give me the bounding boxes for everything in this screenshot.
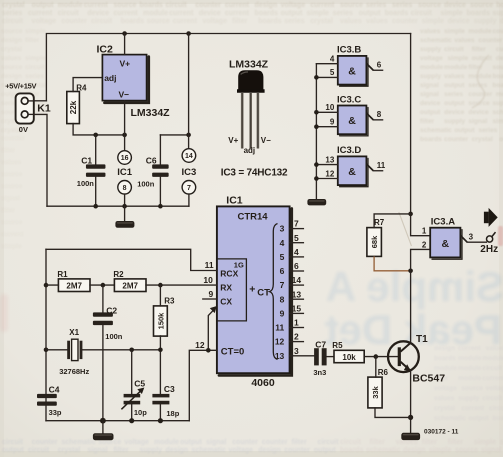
svg-text:series: series bbox=[2, 10, 22, 17]
wire IC3.C input pin 10 bbox=[316, 111, 337, 113]
label IC3.B bbox=[337, 45, 361, 56]
label 0V bbox=[19, 125, 28, 134]
node C2 ground bbox=[100, 418, 106, 424]
crystal X1 bbox=[46, 339, 160, 360]
svg-text:&: & bbox=[348, 166, 356, 178]
svg-text:9: 9 bbox=[280, 309, 285, 319]
svg-text:1: 1 bbox=[422, 227, 427, 236]
svg-text:22k: 22k bbox=[69, 100, 78, 114]
ground (output stage) bbox=[401, 433, 420, 440]
svg-text:simple: simple bbox=[307, 10, 329, 17]
pin number 6 bbox=[294, 261, 299, 271]
label R3 bbox=[164, 297, 175, 306]
wire top supply rail bbox=[46, 34, 410, 101]
svg-text:5: 5 bbox=[280, 252, 285, 262]
svg-text:simple: simple bbox=[25, 55, 46, 62]
resistor R1 bbox=[58, 279, 90, 292]
op-amp IC2 (LM334Z current source) bbox=[102, 55, 148, 103]
label R1 bbox=[57, 270, 68, 279]
svg-text:voltage: voltage bbox=[229, 447, 254, 454]
svg-text:series: series bbox=[444, 91, 463, 98]
pin number internal CT8 bbox=[280, 294, 285, 304]
wire IC3.C output pin 8 bbox=[373, 119, 382, 121]
svg-text:K1: K1 bbox=[37, 102, 51, 114]
svg-text:device: device bbox=[444, 2, 466, 9]
svg-text:current: current bbox=[28, 10, 53, 17]
pin number 11 bbox=[377, 161, 386, 170]
svg-text:7: 7 bbox=[280, 280, 285, 290]
svg-text:CT=0: CT=0 bbox=[221, 346, 245, 357]
svg-text:6: 6 bbox=[280, 266, 285, 276]
svg-text:8: 8 bbox=[377, 110, 382, 119]
svg-text:counter: counter bbox=[1, 135, 25, 142]
svg-text:supply: supply bbox=[444, 118, 465, 125]
svg-text:circuit: circuit bbox=[2, 18, 24, 25]
label + (internal) bbox=[249, 283, 255, 295]
svg-text:simple: simple bbox=[25, 28, 46, 35]
svg-text:device: device bbox=[199, 10, 221, 17]
svg-text:IC3.D: IC3.D bbox=[337, 145, 361, 156]
svg-text:R3: R3 bbox=[164, 297, 175, 306]
pin number 2 bbox=[422, 240, 427, 249]
wire K1 pin1 to +V rail bbox=[34, 100, 47, 102]
gate IC3.B bbox=[338, 56, 368, 86]
wire IC1 pin 1 stub bbox=[290, 327, 304, 329]
svg-text:IC3: IC3 bbox=[182, 167, 197, 178]
svg-text:boards: boards bbox=[434, 355, 456, 362]
svg-text:circuit: circuit bbox=[340, 439, 362, 446]
svg-text:device: device bbox=[448, 18, 470, 25]
svg-text:R7: R7 bbox=[374, 218, 385, 227]
svg-text:values: values bbox=[434, 395, 455, 402]
wire R1 leads bbox=[46, 284, 114, 286]
pin number internal CT11 bbox=[275, 323, 284, 333]
wire C6 top to IC3 supply line bbox=[160, 134, 188, 136]
pin number 4 bbox=[330, 55, 335, 64]
svg-text:module: module bbox=[420, 64, 443, 71]
svg-text:crystal: crystal bbox=[434, 405, 455, 412]
label LM334Z (package) bbox=[229, 58, 269, 70]
pin number 6 bbox=[377, 60, 382, 69]
wire R3 top bbox=[159, 285, 161, 306]
svg-text:V+: V+ bbox=[228, 136, 238, 145]
wire R7 top lead bbox=[374, 214, 411, 228]
svg-text:values: values bbox=[1, 159, 22, 166]
svg-text:12: 12 bbox=[195, 340, 205, 350]
svg-text:boards: boards bbox=[139, 2, 162, 9]
svg-text:module: module bbox=[482, 355, 503, 362]
svg-text:output: output bbox=[420, 109, 441, 116]
label IC3.A bbox=[431, 216, 455, 227]
svg-text:10: 10 bbox=[203, 275, 213, 285]
svg-text:100n: 100n bbox=[105, 332, 123, 341]
label 2Hz bbox=[480, 244, 498, 255]
svg-text:counter: counter bbox=[61, 18, 87, 25]
svg-text:boards: boards bbox=[467, 10, 490, 17]
svg-text:circuit: circuit bbox=[411, 10, 433, 17]
label R7 bbox=[374, 218, 385, 227]
svg-text:simple: simple bbox=[493, 118, 503, 125]
svg-text:IC3 = 74HC132: IC3 = 74HC132 bbox=[221, 167, 288, 178]
gate IC3.D bbox=[338, 156, 368, 186]
svg-text:&: & bbox=[442, 238, 450, 250]
svg-text:IC2: IC2 bbox=[97, 44, 114, 56]
svg-text:IC3.B: IC3.B bbox=[337, 45, 361, 56]
label IC2 bbox=[97, 44, 114, 56]
svg-text:series: series bbox=[366, 2, 386, 9]
label C7 bbox=[315, 340, 326, 350]
svg-text:filter: filter bbox=[448, 439, 463, 446]
label C6 bbox=[146, 156, 157, 166]
label CTR14 bbox=[237, 212, 268, 223]
svg-text:counter: counter bbox=[262, 439, 288, 446]
svg-text:output: output bbox=[468, 415, 489, 422]
node base / R6 bbox=[374, 354, 379, 359]
svg-text:boards: boards bbox=[493, 82, 503, 89]
svg-text:voltage: voltage bbox=[281, 2, 306, 9]
pin bubble 7 (IC3 ground) bbox=[182, 181, 196, 207]
svg-text:current: current bbox=[462, 405, 485, 412]
svg-text:0V: 0V bbox=[19, 125, 28, 134]
svg-text:filter: filter bbox=[1, 147, 16, 154]
pin number internal CT12 bbox=[275, 337, 285, 347]
svg-text:voltage: voltage bbox=[124, 439, 149, 446]
wire IC1 pin 2 stub bbox=[290, 341, 304, 343]
svg-text:boards: boards bbox=[493, 73, 503, 80]
label IC3.D bbox=[337, 145, 361, 156]
svg-text:circuit: circuit bbox=[318, 439, 340, 446]
svg-text:boards: boards bbox=[258, 18, 281, 25]
svg-text:boards: boards bbox=[255, 10, 278, 17]
svg-text:R6: R6 bbox=[378, 368, 389, 377]
svg-text:current: current bbox=[169, 10, 194, 17]
svg-text:supply: supply bbox=[420, 46, 441, 53]
pin number 11 bbox=[205, 260, 214, 270]
svg-text:3: 3 bbox=[469, 233, 474, 242]
svg-text:current: current bbox=[482, 375, 503, 382]
svg-text:boards: boards bbox=[385, 10, 408, 17]
svg-text:V−: V− bbox=[119, 89, 130, 99]
node bus pin5 bbox=[314, 75, 319, 80]
pin number internal CT4 bbox=[280, 238, 285, 248]
wire gate input bus to ground bbox=[315, 64, 317, 199]
wire IC3.D input pin 13 bbox=[316, 164, 337, 166]
svg-text:10p: 10p bbox=[134, 408, 147, 417]
svg-text:source: source bbox=[113, 2, 136, 9]
svg-text:supply: supply bbox=[458, 395, 479, 402]
svg-text:module: module bbox=[434, 365, 457, 372]
svg-text:device: device bbox=[468, 109, 489, 116]
label RCX bbox=[220, 269, 238, 279]
svg-text:filter: filter bbox=[422, 439, 437, 446]
wire IC1 pin 3 to C7 bbox=[290, 355, 315, 357]
trimmer capacitor C5 bbox=[121, 350, 144, 421]
CT output brace bbox=[270, 224, 278, 360]
wire IC1 pin 9 stub bbox=[203, 298, 217, 300]
label V- (package) bbox=[261, 136, 271, 145]
pin number 10 bbox=[325, 103, 334, 112]
svg-text:supply: supply bbox=[474, 18, 497, 25]
clock edge arrow (CX input) bbox=[208, 306, 217, 350]
svg-text:counter: counter bbox=[444, 136, 468, 143]
inverter wedge IC3.C output bbox=[366, 113, 373, 120]
svg-text:C7: C7 bbox=[315, 340, 326, 350]
svg-text:source: source bbox=[462, 385, 484, 392]
node R7 top bbox=[408, 212, 413, 217]
wire R6 top bbox=[375, 357, 377, 378]
svg-text:10: 10 bbox=[325, 103, 334, 112]
resistor R6 bbox=[368, 377, 382, 408]
svg-text:filter: filter bbox=[292, 439, 307, 446]
pin number internal CT13 bbox=[275, 351, 285, 361]
pin number 5 bbox=[294, 233, 299, 243]
svg-text:R5: R5 bbox=[332, 341, 343, 350]
wire IC1 pin 6 stub bbox=[290, 270, 304, 272]
node IC3 supply junction bbox=[186, 133, 191, 138]
capacitor C2 bbox=[93, 285, 113, 421]
svg-text:simple: simple bbox=[448, 55, 469, 62]
svg-text:circuit: circuit bbox=[2, 439, 24, 446]
svg-text:circuit: circuit bbox=[482, 365, 502, 372]
svg-text:current: current bbox=[84, 2, 109, 9]
svg-text:boards: boards bbox=[340, 447, 363, 454]
svg-text:current: current bbox=[113, 10, 138, 17]
svg-text:schematic: schematic bbox=[493, 109, 503, 116]
label R4 bbox=[76, 84, 87, 93]
svg-text:circuit: circuit bbox=[91, 18, 113, 25]
resistor R2 bbox=[114, 279, 146, 292]
label IC3 (supply bubbles) bbox=[182, 167, 197, 178]
label +5V/+15V bbox=[5, 82, 36, 91]
label R5 bbox=[332, 341, 343, 350]
node emitter / R6 ground bbox=[408, 415, 413, 420]
transistor T1 bbox=[388, 341, 419, 372]
label adj (package) bbox=[244, 146, 256, 155]
wire IC1 pin 7 stub bbox=[290, 228, 304, 230]
label C5 bbox=[134, 379, 145, 389]
svg-text:filter: filter bbox=[370, 439, 385, 446]
svg-text:circuit: circuit bbox=[58, 10, 80, 17]
svg-text:output: output bbox=[472, 55, 493, 62]
svg-text:simple: simple bbox=[444, 28, 465, 35]
label 4060 bbox=[251, 377, 275, 389]
node R1 left bbox=[44, 283, 49, 288]
svg-text:source: source bbox=[455, 447, 478, 454]
label IC1 (supply bubbles) bbox=[117, 167, 133, 178]
svg-text:crystal: crystal bbox=[2, 2, 25, 9]
svg-text:33p: 33p bbox=[49, 408, 62, 417]
svg-text:13: 13 bbox=[275, 351, 285, 361]
svg-text:IC1: IC1 bbox=[117, 167, 133, 178]
svg-text:BC547: BC547 bbox=[412, 372, 445, 384]
svg-text:4: 4 bbox=[330, 55, 335, 64]
label CT=0 bbox=[221, 346, 245, 357]
svg-text:signal: signal bbox=[420, 82, 439, 89]
pin number 7 bbox=[294, 219, 299, 229]
svg-text:source: source bbox=[340, 2, 363, 9]
svg-text:100n: 100n bbox=[137, 180, 155, 189]
svg-text:counter: counter bbox=[493, 28, 503, 35]
svg-text:filter: filter bbox=[25, 37, 40, 44]
svg-text:5: 5 bbox=[294, 233, 299, 243]
svg-text:signal: signal bbox=[481, 447, 501, 454]
wire IC1 pin 13 stub bbox=[290, 298, 304, 300]
node R2-R3 bbox=[158, 283, 163, 288]
wire R2 right lead bbox=[146, 284, 160, 286]
svg-text:circuit: circuit bbox=[25, 64, 45, 71]
wire IC3.B input pin 4 bbox=[316, 63, 337, 65]
svg-text:14: 14 bbox=[185, 153, 193, 160]
svg-text:source: source bbox=[1, 64, 23, 71]
wire K1 pin2 to 0V rail bbox=[34, 114, 47, 206]
svg-text:supply: supply bbox=[139, 447, 162, 454]
svg-text:counter: counter bbox=[284, 447, 310, 454]
svg-text:8: 8 bbox=[280, 294, 285, 304]
svg-text:module: module bbox=[154, 439, 179, 446]
label X1 bbox=[69, 328, 79, 337]
svg-text:output: output bbox=[314, 447, 336, 454]
svg-text:2: 2 bbox=[422, 240, 427, 249]
label K1 bbox=[37, 102, 51, 114]
node bus pin10 bbox=[314, 110, 319, 115]
IC IC1 4060 body bbox=[217, 206, 292, 375]
svg-text:schematic: schematic bbox=[366, 447, 400, 454]
svg-text:values: values bbox=[454, 37, 475, 44]
svg-text:output: output bbox=[444, 100, 465, 107]
svg-text:filter: filter bbox=[113, 447, 128, 454]
svg-text:counter: counter bbox=[392, 18, 418, 25]
wire IC1 pin 5 stub bbox=[290, 242, 304, 244]
label CT bbox=[257, 287, 270, 298]
svg-text:12: 12 bbox=[275, 337, 285, 347]
svg-text:schematic: schematic bbox=[192, 447, 226, 454]
svg-text:voltage: voltage bbox=[434, 385, 457, 392]
pin number 1 bbox=[422, 227, 427, 236]
svg-text:source: source bbox=[1, 171, 23, 178]
svg-text:boards: boards bbox=[121, 18, 144, 25]
svg-text:current: current bbox=[310, 2, 335, 9]
svg-text:series: series bbox=[392, 2, 412, 9]
wire IC3.D output pin 11 bbox=[373, 170, 382, 172]
label BC547 bbox=[412, 372, 445, 384]
node C5 ground bbox=[129, 418, 134, 423]
label 32768Hz bbox=[59, 367, 89, 376]
inverter wedge IC3.B output bbox=[366, 63, 373, 70]
svg-text:12: 12 bbox=[325, 169, 334, 178]
wire IC1 pin 12 reset to ground rail bbox=[189, 350, 217, 420]
svg-text:8: 8 bbox=[123, 185, 127, 192]
svg-text:68k: 68k bbox=[370, 235, 379, 248]
svg-text:current: current bbox=[225, 10, 250, 17]
svg-text:150k: 150k bbox=[156, 312, 165, 330]
wire IC3.B output pin 6 bbox=[373, 69, 382, 71]
pin number 12 bbox=[325, 169, 334, 178]
svg-text:18p: 18p bbox=[166, 409, 179, 418]
pin number 3 bbox=[294, 346, 299, 356]
svg-text:supply: supply bbox=[493, 100, 503, 107]
node X1 / R3 branch bbox=[158, 348, 163, 353]
svg-text:schematic: schematic bbox=[61, 439, 95, 446]
wire right rail upper bbox=[411, 34, 431, 236]
svg-text:current: current bbox=[1, 231, 24, 238]
gate IC3.C bbox=[338, 106, 368, 136]
label 100n (C6) bbox=[137, 180, 155, 189]
svg-text:C6: C6 bbox=[146, 156, 157, 166]
wire R6 bottom to emitter bbox=[375, 408, 411, 418]
svg-text:LM334Z: LM334Z bbox=[131, 107, 171, 119]
pin number 13 bbox=[292, 289, 302, 299]
inverter wedge IC3.D output bbox=[366, 164, 373, 171]
svg-text:module: module bbox=[468, 28, 491, 35]
svg-text:current: current bbox=[225, 2, 250, 9]
wire R3 bottom through X1 row to C3 bbox=[159, 336, 161, 394]
wire oscillator left rail bbox=[45, 249, 47, 420]
svg-text:C4: C4 bbox=[49, 385, 60, 395]
pin number 3 bbox=[469, 233, 474, 242]
svg-text:module: module bbox=[58, 2, 83, 9]
node bus pin9 bbox=[314, 124, 319, 129]
pin number internal CT5 bbox=[280, 252, 285, 262]
svg-text:source: source bbox=[147, 18, 170, 25]
svg-text:voltage: voltage bbox=[420, 55, 443, 62]
svg-text:source: source bbox=[1, 219, 23, 226]
svg-text:simple: simple bbox=[1, 243, 22, 250]
svg-text:9: 9 bbox=[208, 289, 213, 299]
svg-text:circuit: circuit bbox=[489, 405, 503, 412]
node C1 bottom bbox=[93, 204, 98, 209]
svg-text:source: source bbox=[1, 183, 23, 190]
svg-text:32768Hz: 32768Hz bbox=[59, 367, 89, 376]
pin number 13 bbox=[325, 155, 334, 164]
svg-text:+: + bbox=[249, 283, 255, 295]
svg-text:crystal: crystal bbox=[472, 136, 493, 143]
svg-text:IC3.A: IC3.A bbox=[431, 216, 455, 227]
pin number internal CT7 bbox=[280, 280, 285, 290]
svg-text:V+: V+ bbox=[120, 59, 131, 69]
label R6 bbox=[378, 368, 389, 377]
svg-text:030172 - 11: 030172 - 11 bbox=[424, 428, 459, 435]
capacitor C7 bbox=[314, 348, 334, 365]
svg-text:output: output bbox=[359, 10, 381, 17]
wire 0V rail (decoupling row) bbox=[47, 205, 189, 207]
resistor R7 bbox=[367, 228, 382, 257]
svg-text:1: 1 bbox=[294, 318, 299, 328]
pin number 8 bbox=[377, 110, 382, 119]
pin number 5 bbox=[330, 68, 335, 77]
wire oscillator ground rail bbox=[46, 420, 189, 422]
label C1 bbox=[81, 156, 92, 166]
svg-text:supply: supply bbox=[493, 10, 503, 17]
svg-text:module: module bbox=[458, 375, 481, 382]
node junction top rail / IC3 supply line bbox=[186, 31, 191, 36]
svg-text:16: 16 bbox=[121, 155, 129, 162]
label 18p bbox=[166, 409, 179, 418]
svg-text:module: module bbox=[468, 73, 491, 80]
svg-text:Simple A: Simple A bbox=[326, 263, 503, 310]
pin number 9 bbox=[208, 289, 213, 299]
svg-text:3n3: 3n3 bbox=[313, 368, 326, 377]
label CX bbox=[220, 297, 232, 307]
wire R4 bottom to V- supply node bbox=[73, 124, 125, 135]
svg-text:values: values bbox=[340, 18, 362, 25]
svg-text:module: module bbox=[143, 10, 168, 17]
svg-text:output: output bbox=[454, 127, 475, 134]
transistor package TO-92 body bbox=[237, 70, 265, 91]
svg-text:RCX: RCX bbox=[220, 269, 238, 279]
label C2 bbox=[106, 305, 117, 315]
svg-text:counter: counter bbox=[468, 91, 492, 98]
node X1 / C5 branch bbox=[129, 348, 134, 353]
